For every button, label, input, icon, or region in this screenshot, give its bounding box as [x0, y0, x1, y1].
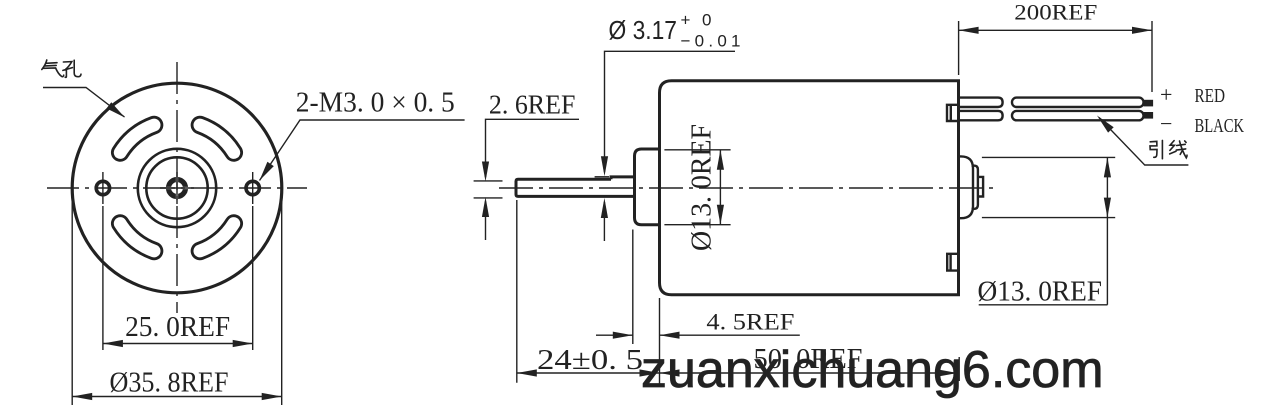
boss left extension down — [632, 230, 634, 345]
arrow 35.8 right — [262, 393, 282, 400]
yinxian leader — [1099, 118, 1188, 166]
motor body — [660, 81, 959, 295]
RIGHT VIEW — [516, 81, 959, 295]
arrow dia13 inner down — [717, 205, 724, 225]
arrow dia3.17 down — [601, 156, 608, 176]
arrow 200 left — [959, 27, 979, 34]
vent slot bottom-right — [200, 224, 234, 252]
wire 1 segment b — [1012, 98, 1144, 107]
step top extension — [595, 176, 609, 178]
vent slot top-right — [200, 125, 234, 153]
shaft top extension — [474, 180, 503, 182]
svg-text:24±0. 5: 24±0. 5 — [537, 344, 643, 376]
dia3.17 lower arrow tail — [603, 202, 605, 241]
shaft — [516, 179, 635, 196]
vent slot top-left — [120, 125, 154, 153]
svg-text:zuanxichuang6.com: zuanxichuang6.com — [641, 341, 1104, 399]
svg-text:Ø35. 8REF: Ø35. 8REF — [110, 367, 229, 399]
arrow 2-M3 leader — [260, 162, 274, 181]
arrow rear dia13 up — [1104, 157, 1111, 177]
arrow 25.0 left — [103, 340, 123, 347]
arrow 200 right — [1132, 27, 1152, 34]
horizontal centerline left view — [47, 187, 307, 189]
shaft bottom extension — [474, 197, 503, 199]
boss circle inner — [146, 157, 207, 218]
wire terminal 2 — [1144, 112, 1154, 119]
wire 2 segment a — [958, 111, 1003, 120]
boss circle outer — [138, 149, 216, 227]
vent slot bottom-left — [120, 224, 154, 252]
rear dia13 extension lines — [982, 157, 1115, 217]
arrow 50 left — [660, 369, 680, 376]
svg-text:BLACK: BLACK — [1195, 115, 1245, 137]
arrow dia3.17 up — [601, 198, 608, 218]
25.0REF dimension line — [103, 343, 253, 345]
svg-text:25. 0REF: 25. 0REF — [125, 311, 230, 343]
svg-text:−0.01: −0.01 — [681, 32, 741, 51]
motor outer circle — [72, 83, 282, 293]
leader 2-M3 — [260, 120, 465, 181]
dia13 inner dimension line — [719, 150, 721, 225]
arrow 2.6 up — [482, 197, 489, 217]
arrow dia13 inner up — [717, 150, 724, 170]
arrow 4.5 left-side — [613, 332, 633, 339]
arrow 50 right — [938, 369, 958, 376]
25.0REF extension lines — [102, 206, 104, 350]
arrow 35.8 left — [72, 393, 92, 400]
arrow 24 right — [640, 369, 660, 376]
arrow 2.6 down — [482, 162, 489, 182]
arrow yinxian — [1097, 116, 1114, 133]
front boss — [635, 149, 660, 225]
boss top extension — [664, 149, 730, 151]
CJK yinxian (lead wire) — [1150, 140, 1187, 158]
4.5REF dimension line — [596, 334, 800, 336]
wire 1 segment a — [958, 98, 1003, 107]
shaft end extension down — [516, 200, 518, 383]
24 and 50 dimension line — [517, 372, 958, 374]
shaft step — [611, 177, 635, 179]
svg-text:+: + — [1160, 82, 1172, 107]
hole left vertical centerline — [102, 172, 104, 204]
mounting hole left — [96, 181, 109, 194]
200REF extension lines — [959, 21, 1152, 92]
wire 2 segment b — [1012, 111, 1144, 120]
svg-text:−: − — [1160, 111, 1172, 136]
arrow qikong leader — [107, 102, 125, 117]
rear dia13 text underline — [979, 304, 1108, 306]
arrow 4.5 right-side — [660, 332, 680, 339]
svg-text:Ø13. 0REF: Ø13. 0REF — [978, 276, 1103, 308]
rear dia13 dimension line — [1106, 157, 1108, 304]
35.8REF dimension line — [72, 396, 282, 398]
wire terminal 1 — [1144, 100, 1154, 107]
body left extension down — [659, 298, 661, 386]
dia3.17 leader — [605, 51, 736, 172]
bottom tab — [947, 254, 958, 271]
hole right vertical centerline — [252, 172, 254, 204]
boss bottom extension — [664, 224, 730, 226]
svg-text:4. 5REF: 4. 5REF — [706, 310, 794, 335]
svg-text:200REF: 200REF — [1014, 0, 1097, 25]
svg-text:RED: RED — [1195, 85, 1226, 107]
200REF dimension line — [959, 29, 1152, 31]
2.6REF lower arrow tail — [485, 202, 487, 241]
mounting hole right — [246, 181, 259, 194]
35.8REF extension lines — [71, 194, 73, 405]
svg-text:2-M3. 0 × 0. 5: 2-M3. 0 × 0. 5 — [296, 87, 455, 119]
vertical centerline left view — [176, 62, 178, 313]
svg-text:2. 6REF: 2. 6REF — [489, 90, 576, 120]
shaft section ring — [169, 180, 186, 197]
wire grommet — [947, 105, 959, 121]
2.6REF leader — [486, 119, 580, 177]
svg-text:Ø 3.17: Ø 3.17 — [609, 15, 678, 45]
leader qikong — [43, 88, 125, 118]
arrow rear dia13 down — [1104, 198, 1111, 218]
arrow 24 left — [517, 369, 537, 376]
svg-text:Ø13. 0REF: Ø13. 0REF — [687, 124, 718, 251]
body right extension down — [958, 357, 960, 381]
CJK qikong (air hole) — [42, 60, 81, 77]
arrow 25.0 right — [233, 340, 253, 347]
main axis centerline — [499, 187, 994, 189]
rear bearing bump — [959, 156, 984, 218]
